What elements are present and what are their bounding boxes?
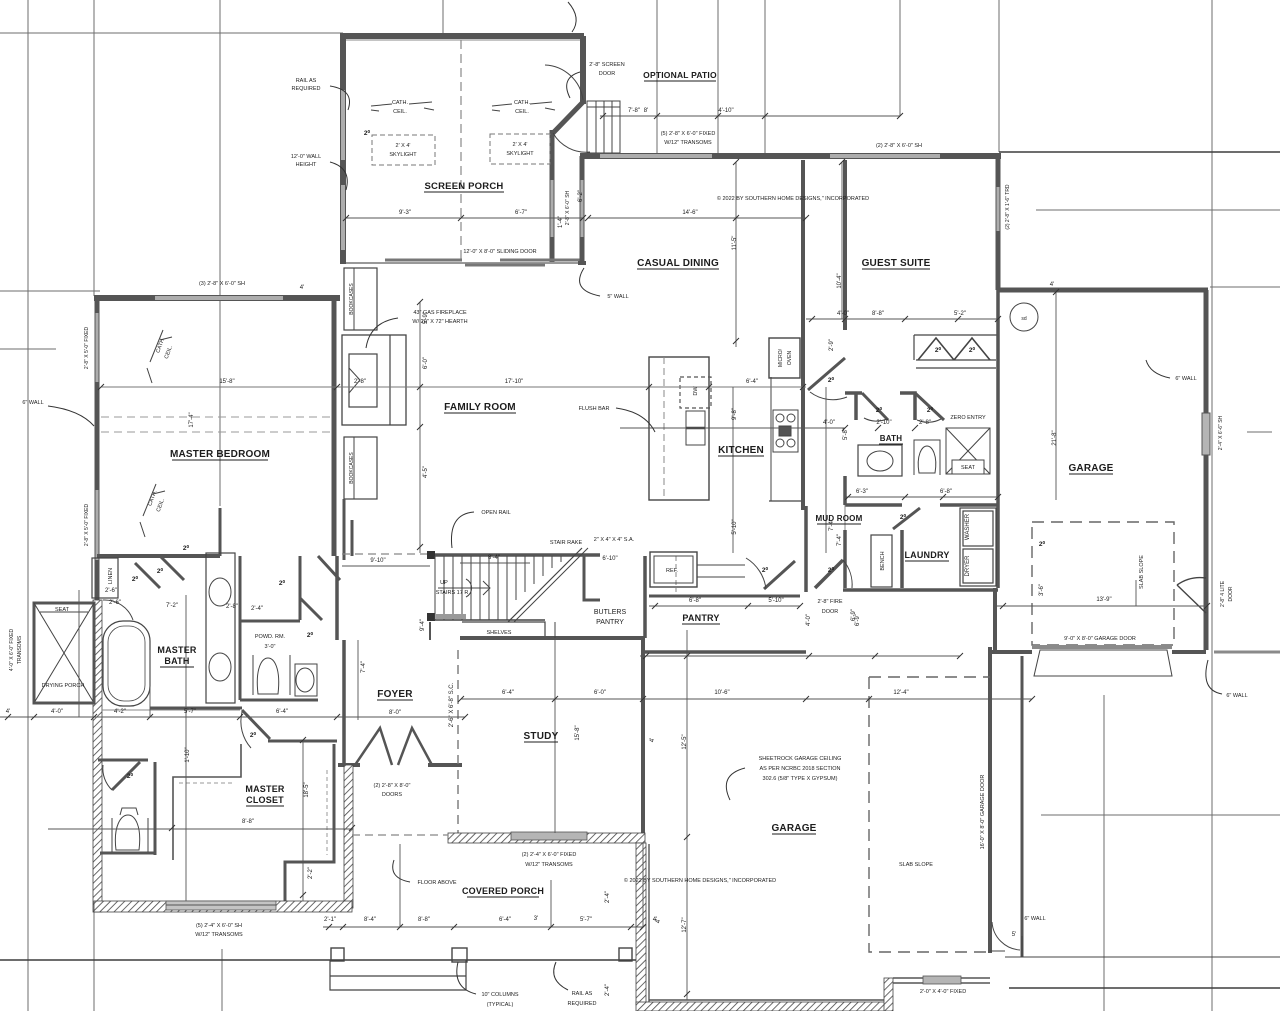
garage inner south line	[649, 999, 884, 1001]
dim patio y116	[600, 115, 900, 117]
hatched study front wall	[448, 833, 645, 843]
closet doors chevron	[918, 338, 954, 360]
svg-text:DOOR: DOOR	[599, 71, 616, 77]
svg-text:OVEN: OVEN	[787, 351, 793, 366]
dim vert x352 foyer	[357, 640, 359, 720]
svg-text:RAIL AS: RAIL AS	[296, 78, 317, 84]
svg-text:12'-0" X 8'-0" SLIDING DOOR: 12'-0" X 8'-0" SLIDING DOOR	[463, 249, 536, 255]
svg-text:BATH: BATH	[164, 656, 189, 666]
svg-text:7'-8": 7'-8"	[628, 108, 640, 114]
dim vert x150 bath	[149, 650, 151, 717]
MASTER BATH AREA	[34, 508, 340, 710]
svg-text:2⁰: 2⁰	[279, 579, 286, 587]
svg-text:CEIL.: CEIL.	[156, 497, 167, 512]
4-lite door arc right wall	[1177, 578, 1206, 613]
svg-text:(3) 2'-8" X 6'-0" SH: (3) 2'-8" X 6'-0" SH	[199, 281, 245, 287]
garage door panel	[1034, 650, 1172, 676]
grid vertical x999	[998, 0, 1000, 152]
svg-text:2'-8" 4 LITE: 2'-8" 4 LITE	[1220, 580, 1226, 607]
svg-text:2'-8": 2'-8"	[226, 604, 238, 610]
powder room	[240, 556, 318, 700]
svg-text:5'-10": 5'-10"	[768, 598, 783, 604]
wc toilet	[112, 818, 148, 852]
landing bar	[436, 614, 466, 619]
wall bath top jog	[845, 391, 862, 395]
svg-text:4'-5": 4'-5"	[423, 466, 429, 478]
svg-text:4'-0" X 6'-0" FIXED: 4'-0" X 6'-0" FIXED	[9, 629, 15, 672]
dim vert x687 lgarage	[686, 630, 688, 1000]
linen box	[92, 558, 118, 598]
porch front line y960	[0, 959, 643, 961]
leader 6wall garage top	[1146, 360, 1170, 378]
dim guest y428	[620, 427, 845, 429]
svg-text:2'-6": 2'-6"	[109, 600, 121, 606]
wall dining-porch sill corner	[578, 261, 586, 265]
svg-text:9'-8": 9'-8"	[732, 408, 738, 420]
smoke detector	[1010, 303, 1038, 331]
svg-text:6'-8": 6'-8"	[689, 598, 701, 604]
svg-text:W/12" TRANSOMS: W/12" TRANSOMS	[195, 932, 243, 938]
window bedroom top	[155, 296, 283, 300]
svg-text:7'-4": 7'-4"	[361, 661, 367, 673]
svg-text:2'-4": 2'-4"	[251, 606, 263, 612]
laundry door	[893, 508, 920, 529]
svg-text:3': 3'	[534, 916, 538, 922]
porch sliding door sill	[346, 262, 583, 264]
ref box	[650, 552, 697, 587]
counter east edge	[770, 377, 772, 501]
svg-text:(2) 2'-8" X 1'-6" TRD: (2) 2'-8" X 1'-6" TRD	[1005, 184, 1011, 229]
grid horizontal y291	[0, 290, 100, 292]
washer dryer	[960, 508, 996, 586]
MAIN TOP WALL	[578, 156, 1001, 290]
hatched jog SE	[884, 978, 893, 1011]
svg-text:12'-7": 12'-7"	[682, 917, 688, 932]
dim closet y828	[48, 828, 352, 830]
butlers pantry walls	[584, 556, 600, 600]
grid vertical x94 upper	[93, 0, 95, 296]
stair treads	[435, 556, 561, 620]
svg-text:5'-7": 5'-7"	[184, 709, 196, 715]
svg-text:2⁰: 2⁰	[876, 406, 883, 414]
svg-text:1'-10": 1'-10"	[185, 747, 191, 762]
svg-text:SLAB SLOPE: SLAB SLOPE	[899, 862, 933, 868]
wall left of garage door	[990, 650, 1032, 654]
dim vert x643b study-garage	[642, 843, 644, 927]
grid horizontal y432 right	[1247, 431, 1272, 433]
wall porch top	[340, 33, 584, 39]
svg-text:BUTLERS: BUTLERS	[594, 609, 627, 616]
svg-text:SHEETROCK GARAGE CEILING: SHEETROCK GARAGE CEILING	[759, 756, 842, 762]
wall garage right	[1204, 290, 1209, 650]
DIMENSION TEXT	[6, 108, 1112, 933]
window dining left	[581, 180, 584, 237]
svg-text:43" GAS FIREPLACE: 43" GAS FIREPLACE	[413, 310, 467, 316]
dashed attic dashed small	[675, 556, 677, 592]
svg-text:2'-6": 2'-6"	[105, 588, 117, 594]
door diag closet entry	[242, 710, 270, 739]
garage inner west line	[648, 844, 650, 1002]
window study front	[511, 832, 587, 840]
svg-text:2'-4": 2'-4"	[605, 984, 611, 996]
stair up arrow	[438, 581, 490, 595]
svg-text:4'-10": 4'-10"	[718, 108, 733, 114]
dim mud y606	[649, 605, 800, 607]
svg-text:4': 4'	[6, 709, 10, 715]
svg-text:8'-8": 8'-8"	[872, 311, 884, 317]
svg-text:8'-0": 8'-0"	[389, 710, 401, 716]
svg-text:CATH.: CATH.	[514, 100, 531, 106]
wall porch right	[580, 36, 586, 104]
svg-text:2⁰: 2⁰	[1039, 540, 1046, 548]
svg-text:6'-9": 6'-9"	[851, 609, 857, 621]
grid horizontal y815 right	[1041, 814, 1280, 816]
tub	[103, 621, 150, 706]
svg-text:CLOSET: CLOSET	[246, 795, 284, 805]
svg-text:DRYER: DRYER	[965, 555, 971, 577]
mud door diagonal	[815, 560, 843, 588]
dashed ceiling lines bedroom	[101, 416, 334, 418]
svg-text:2'-1": 2'-1"	[324, 917, 336, 923]
svg-text:CEIL.: CEIL.	[393, 109, 407, 115]
svg-text:STUDY: STUDY	[524, 731, 559, 742]
svg-text:POWD. RM.: POWD. RM.	[255, 634, 286, 640]
svg-text:15'-8": 15'-8"	[219, 379, 234, 385]
svg-text:2" X 4" X 4" S.A.: 2" X 4" X 4" S.A.	[594, 537, 635, 543]
svg-text:2'-8": 2'-8"	[354, 379, 366, 385]
svg-text:sd: sd	[1021, 316, 1027, 322]
svg-text:AS PER NCRBC 2018 SECTION: AS PER NCRBC 2018 SECTION	[760, 766, 841, 772]
svg-text:© 2022 BY SOUTHERN HOME DESIGN: © 2022 BY SOUTHERN HOME DESIGNS," INCORP…	[624, 877, 776, 884]
stair break diagonal	[508, 548, 582, 622]
svg-text:2⁰: 2⁰	[927, 406, 934, 414]
windows bedroom left	[96, 313, 99, 382]
svg-text:4': 4'	[650, 738, 656, 742]
leader 6 wall	[48, 406, 94, 426]
svg-text:5'-10": 5'-10"	[732, 519, 738, 534]
floor above dashed	[352, 834, 448, 836]
leader open rail	[451, 512, 474, 548]
svg-text:4'-0": 4'-0"	[837, 311, 849, 317]
svg-text:HEIGHT: HEIGHT	[296, 162, 317, 168]
grid horizontal y33	[0, 32, 343, 34]
bath toilet	[914, 440, 940, 475]
wall study left dashed	[457, 650, 459, 833]
svg-text:10'-4": 10'-4"	[837, 273, 843, 288]
FAMILY ROOM WEST	[342, 268, 406, 560]
svg-text:2⁰: 2⁰	[250, 731, 257, 739]
svg-text:2⁰: 2⁰	[127, 772, 134, 780]
wall house top	[580, 153, 1001, 159]
dim cporch y927	[323, 926, 643, 928]
svg-text:7'-4": 7'-4"	[837, 534, 843, 546]
garage door bar	[1032, 645, 1172, 649]
wall bath mid vertical	[843, 476, 847, 505]
svg-text:21'-8": 21'-8"	[1052, 430, 1058, 445]
pantry door	[764, 561, 795, 589]
walk door corner	[990, 936, 1280, 957]
stair top rail dark	[427, 553, 600, 557]
grid vertical x220	[219, 0, 221, 506]
svg-text:REF.: REF.	[666, 568, 678, 574]
svg-text:2⁰: 2⁰	[828, 566, 835, 574]
outside steps top right	[587, 101, 620, 153]
svg-text:5" WALL: 5" WALL	[607, 294, 628, 300]
svg-text:6'-2": 6'-2"	[578, 190, 584, 202]
svg-text:(TYPICAL): (TYPICAL)	[487, 1002, 514, 1008]
svg-text:6'-4": 6'-4"	[746, 379, 758, 385]
hatched closet south wall	[94, 901, 352, 912]
wall guest suite right (east)	[996, 156, 1001, 290]
grid horizontal y349	[0, 348, 56, 350]
svg-text:REQUIRED: REQUIRED	[567, 1001, 596, 1007]
bench	[871, 535, 892, 587]
svg-text:2⁰: 2⁰	[157, 567, 164, 575]
wall bedroom left upper	[95, 295, 100, 600]
laundry room	[843, 290, 998, 590]
svg-text:2' X 4': 2' X 4'	[513, 142, 528, 148]
dim stairs y566	[342, 565, 430, 567]
svg-text:5'-2": 5'-2"	[954, 311, 966, 317]
grid vertical x94 lower	[93, 912, 95, 1011]
svg-text:12'-0" WALL: 12'-0" WALL	[291, 154, 321, 160]
closet inner walls	[173, 744, 241, 860]
dim vert x186 bath	[185, 595, 187, 901]
leader sheetrock	[726, 768, 745, 800]
dim vert x1136 garage13	[1135, 580, 1137, 606]
svg-text:COVERED PORCH: COVERED PORCH	[462, 886, 544, 896]
wall bedroom bottom	[97, 554, 220, 558]
column mid	[452, 948, 467, 962]
closet east wall	[285, 744, 334, 901]
svg-text:5'-7": 5'-7"	[580, 917, 592, 923]
leader columns	[457, 962, 476, 994]
zero entry shower	[946, 428, 990, 474]
svg-text:2'-0" X 4'-0" FIXED: 2'-0" X 4'-0" FIXED	[920, 989, 966, 995]
stair newels	[427, 551, 435, 559]
dim vert x79 drying	[78, 590, 80, 717]
bath vanity	[858, 445, 902, 476]
grid vertical x443	[442, 0, 444, 33]
svg-text:REQUIRED: REQUIRED	[291, 86, 320, 92]
grid vertical x222 bottom	[221, 949, 223, 1011]
svg-text:FAMILY ROOM: FAMILY ROOM	[444, 402, 516, 413]
svg-text:LAUNDRY: LAUNDRY	[904, 550, 949, 560]
svg-text:9'-0" X 8'-0" GARAGE DOOR: 9'-0" X 8'-0" GARAGE DOOR	[1064, 636, 1136, 642]
svg-text:CEIL.: CEIL.	[164, 344, 175, 359]
svg-text:MUD ROOM: MUD ROOM	[816, 514, 863, 523]
svg-text:ZERO ENTRY: ZERO ENTRY	[950, 415, 986, 421]
island	[649, 357, 709, 500]
svg-text:DOOR: DOOR	[1228, 586, 1234, 601]
window closet south	[166, 901, 276, 910]
leader flush bar	[616, 408, 655, 432]
svg-text:2⁰: 2⁰	[132, 575, 139, 583]
bookcase lower	[344, 437, 377, 499]
LEFT GARAGE	[636, 677, 990, 1011]
SCREEN PORCH	[340, 33, 620, 265]
MASTER CLOSET	[94, 708, 352, 912]
svg-text:4'-2": 4'-2"	[114, 709, 126, 715]
svg-text:WASHER: WASHER	[965, 513, 971, 540]
svg-text:8'-4": 8'-4"	[364, 917, 376, 923]
svg-text:(2) 2'-4" X 6'-0" FIXED: (2) 2'-4" X 6'-0" FIXED	[522, 852, 577, 858]
leader 6wall right	[1206, 660, 1222, 694]
stoop edge y652	[1214, 651, 1280, 654]
svg-text:PANTRY: PANTRY	[682, 613, 719, 623]
svg-text:12'-5": 12'-5"	[682, 734, 688, 749]
wall foyer-stair left x344	[343, 499, 346, 560]
range burners	[773, 410, 798, 452]
svg-text:2'-4": 2'-4"	[605, 891, 611, 903]
svg-text:3'-0": 3'-0"	[265, 644, 276, 650]
svg-text:4'-0": 4'-0"	[823, 420, 835, 426]
svg-text:16'-0" X 8'-0" GARAGE DOOR: 16'-0" X 8'-0" GARAGE DOOR	[980, 775, 986, 850]
bookcase upper	[344, 268, 377, 330]
guest closet	[914, 335, 998, 368]
svg-text:11'-5": 11'-5"	[732, 236, 738, 251]
svg-text:MICRO/: MICRO/	[778, 348, 784, 367]
svg-text:2⁰: 2⁰	[762, 566, 769, 574]
leader top center	[568, 2, 576, 32]
dashed opening foyer top	[429, 622, 431, 640]
wall bedroom top	[94, 295, 340, 301]
ROOM NAME LABELS	[157, 70, 1113, 896]
garage front wall	[893, 978, 990, 983]
hatched garage south wall	[636, 1002, 886, 1011]
dim long y387	[101, 386, 806, 388]
svg-text:SHELVES: SHELVES	[487, 630, 512, 636]
dim guest bath y497	[845, 496, 998, 498]
hatched garage west wall	[636, 843, 646, 1005]
porch ridge dashed	[460, 40, 462, 262]
dim mud y656	[640, 655, 960, 657]
grid vertical x900	[899, 0, 901, 116]
dim vert x733 kitchen	[732, 387, 734, 553]
wall casual dining left	[580, 156, 585, 265]
wall x220 hall	[219, 508, 222, 556]
wall garage west x990	[988, 647, 992, 953]
svg-text:17'-10": 17'-10"	[505, 379, 524, 385]
leader rail bottom	[554, 962, 568, 990]
window garage right	[1202, 413, 1210, 455]
dark line y152 right of house	[999, 151, 1280, 153]
svg-text:PANTRY: PANTRY	[596, 619, 624, 626]
svg-text:10'-6": 10'-6"	[714, 690, 729, 696]
svg-text:6'-10": 6'-10"	[602, 556, 617, 562]
big garage door dashed slab	[869, 677, 990, 952]
sink boxes	[686, 411, 705, 445]
wall closet n y740	[268, 740, 337, 743]
svg-text:15'-8": 15'-8"	[575, 725, 581, 740]
svg-text:(2) 2'-8" X 8'-0": (2) 2'-8" X 8'-0"	[374, 783, 411, 789]
svg-text:BATH: BATH	[880, 434, 902, 443]
wall porch angled corner	[553, 102, 583, 133]
dim garage right y606	[997, 605, 1207, 607]
svg-text:4': 4'	[300, 285, 304, 291]
drying porch box	[34, 603, 94, 703]
svg-text:10" COLUMNS: 10" COLUMNS	[481, 992, 518, 998]
svg-text:2'-8" X 6'-0" SH: 2'-8" X 6'-0" SH	[565, 190, 571, 225]
leader floor above	[393, 860, 410, 882]
svg-text:GUEST SUITE: GUEST SUITE	[862, 258, 931, 269]
dim dining y218	[588, 217, 806, 219]
fireplace	[342, 335, 406, 425]
wall bath-closet divider y703-717	[34, 702, 94, 705]
svg-text:5'-8": 5'-8"	[843, 428, 849, 440]
wall x337 foyer-left col	[335, 556, 339, 640]
wall guest left	[843, 160, 847, 330]
svg-text:FOYER: FOYER	[377, 689, 413, 700]
svg-text:W/ 20" X 72" HEARTH: W/ 20" X 72" HEARTH	[412, 319, 467, 325]
svg-text:SKYLIGHT: SKYLIGHT	[506, 151, 534, 157]
svg-text:2'-2": 2'-2"	[308, 867, 314, 879]
dim stairs y563 right	[460, 562, 530, 564]
grid vertical x28	[27, 0, 29, 1011]
screen door swing arc	[545, 65, 583, 100]
svg-text:DRYING PORCH: DRYING PORCH	[42, 683, 85, 689]
column right	[619, 948, 632, 961]
skylight dashed box left	[372, 135, 435, 165]
leader 5 wall	[580, 268, 600, 296]
svg-text:2⁰: 2⁰	[364, 129, 371, 137]
svg-text:12'-4": 12'-4"	[893, 690, 908, 696]
svg-text:14'-6": 14'-6"	[682, 210, 697, 216]
svg-text:TRANSOMS: TRANSOMS	[17, 635, 23, 664]
svg-text:2⁰: 2⁰	[935, 346, 942, 354]
powder door diag	[300, 598, 322, 620]
svg-text:2⁰: 2⁰	[969, 346, 976, 354]
powder toilet	[253, 655, 290, 695]
svg-text:1'-4": 1'-4"	[558, 216, 564, 228]
wall closet top y760	[98, 759, 148, 762]
leader screen door	[567, 72, 580, 98]
svg-text:(5) 2'-8" X 6'-0" FIXED: (5) 2'-8" X 6'-0" FIXED	[661, 131, 716, 137]
STAIRS	[342, 548, 600, 622]
seat band	[40, 611, 88, 613]
wall study right x643	[641, 638, 645, 833]
FOYER STUDY	[338, 638, 646, 1005]
wc room	[100, 762, 155, 855]
svg-text:DOOR: DOOR	[822, 609, 839, 615]
wall bath bottom y710	[150, 707, 242, 710]
dim vert x420 family	[419, 302, 421, 553]
svg-text:6'-3": 6'-3"	[856, 489, 868, 495]
svg-text:6'-0": 6'-0"	[423, 357, 429, 369]
window front	[923, 976, 961, 984]
svg-text:2'-8": 2'-8"	[919, 420, 931, 426]
dw box dashed	[680, 377, 711, 408]
wall foyer front left piece	[338, 763, 360, 767]
wall bath hall top doors	[135, 563, 160, 588]
walk door arc	[992, 922, 1020, 950]
powder sink	[296, 668, 314, 692]
grid vertical x765	[764, 0, 766, 157]
svg-text:MASTER: MASTER	[157, 645, 196, 655]
svg-text:6'-4": 6'-4"	[276, 709, 288, 715]
hatched wall master left lower	[93, 600, 102, 912]
dim vert x1056 garage	[1055, 292, 1057, 500]
wall kitchen east	[801, 160, 805, 510]
dim vert x826 fam-kitchen	[825, 387, 827, 553]
svg-text:4': 4'	[1050, 282, 1054, 288]
svg-text:BOOKCASES: BOOKCASES	[349, 283, 355, 315]
dim guest y319	[806, 318, 998, 320]
garage side door dashed slab	[1032, 522, 1174, 645]
svg-text:3'-6": 3'-6"	[1039, 584, 1045, 596]
svg-text:W/12" TRANSOMS: W/12" TRANSOMS	[525, 862, 573, 868]
svg-text:13'-9": 13'-9"	[1096, 597, 1111, 603]
